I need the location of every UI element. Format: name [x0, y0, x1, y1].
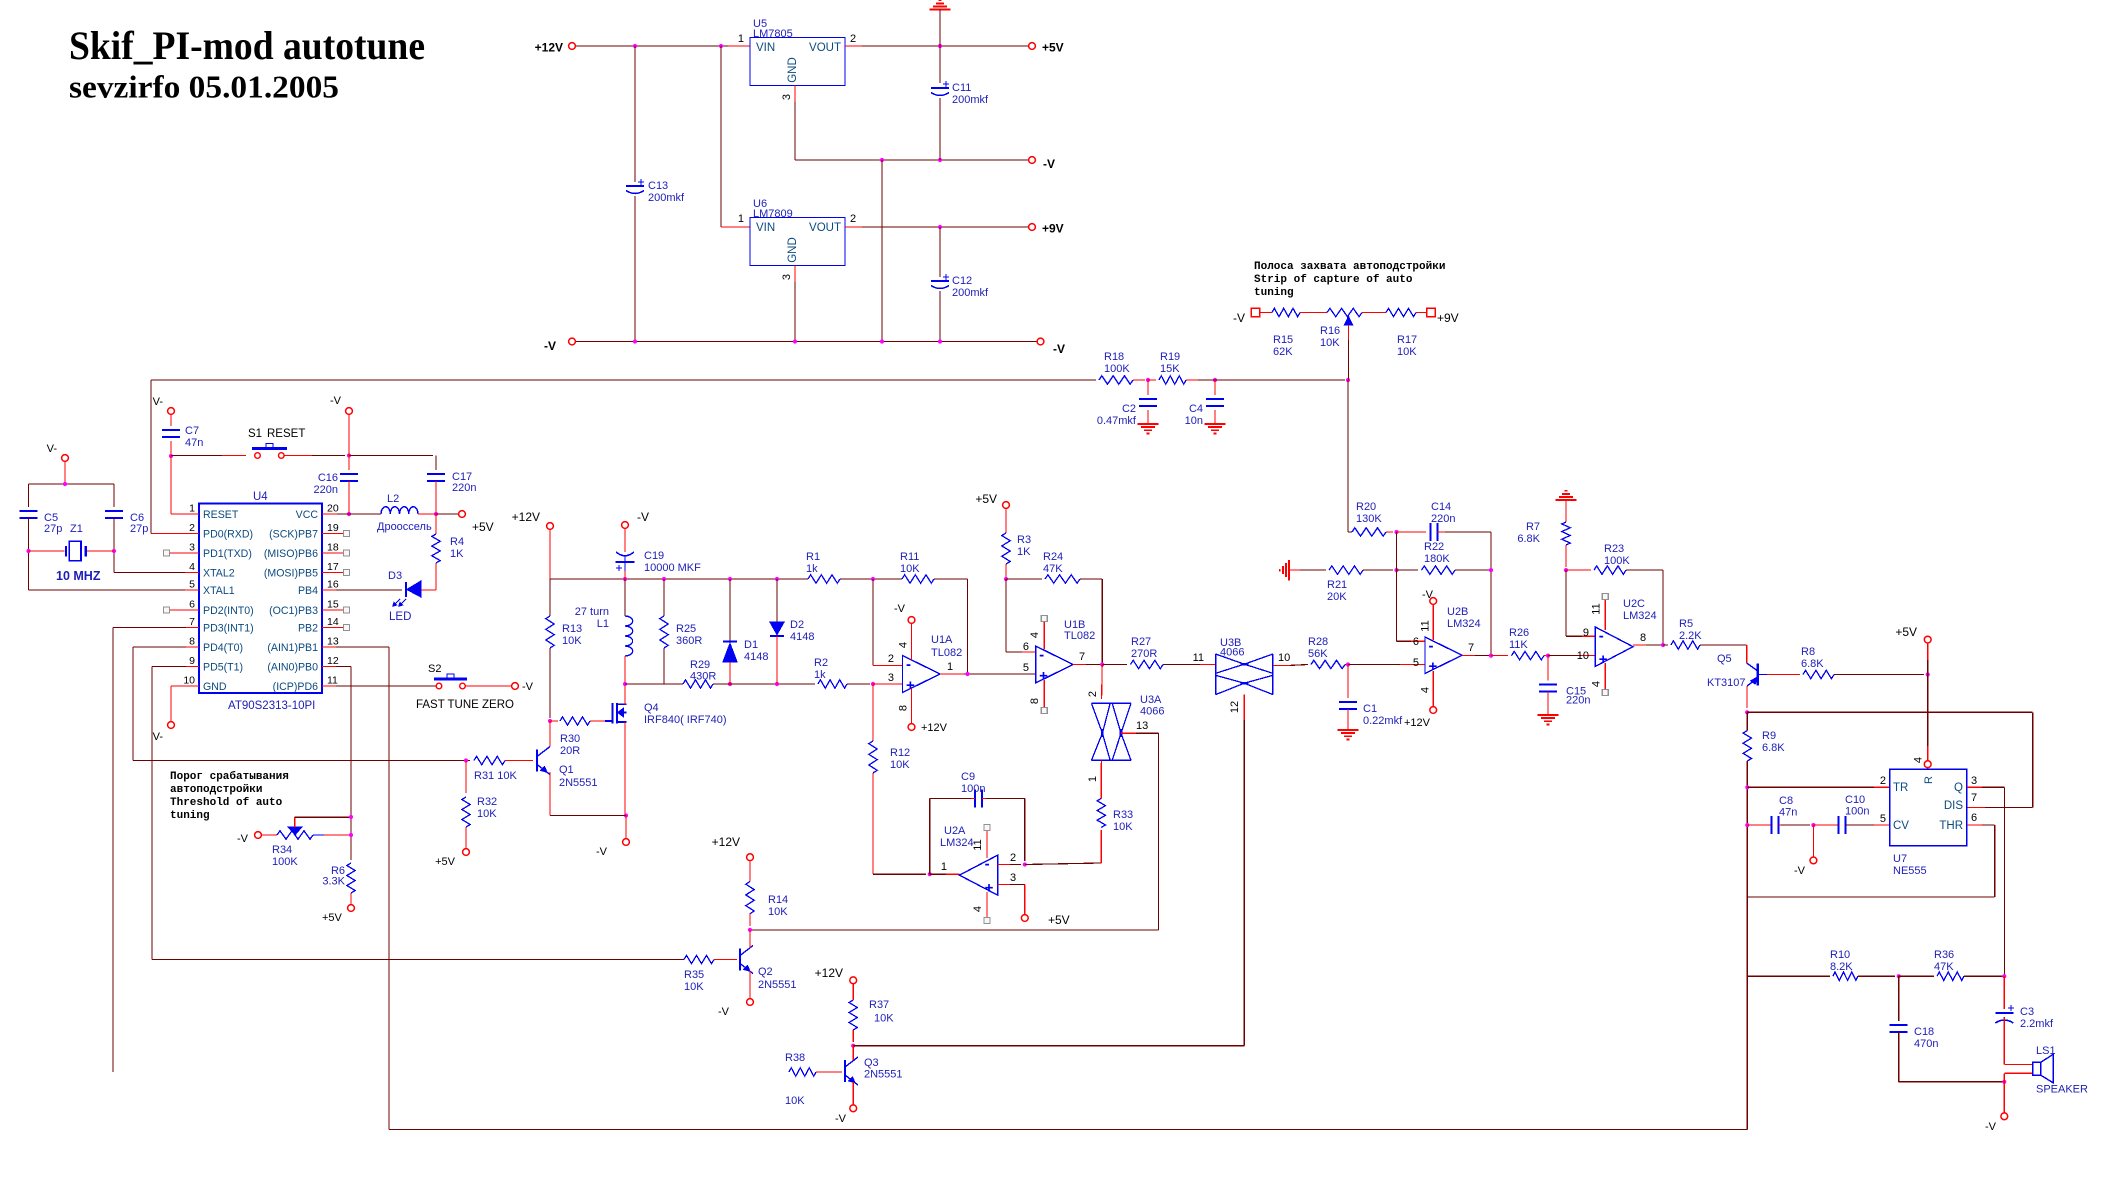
svg-text:100n: 100n — [961, 783, 985, 795]
svg-text:4: 4 — [189, 561, 195, 573]
svg-text:C1: C1 — [1363, 703, 1377, 715]
svg-text:220n: 220n — [452, 482, 476, 494]
svg-text:2.2mkf: 2.2mkf — [2020, 1018, 2054, 1030]
svg-text:-: - — [1599, 628, 1604, 645]
svg-text:-V: -V — [1422, 589, 1434, 601]
svg-text:PB4: PB4 — [298, 585, 318, 597]
svg-text:R1: R1 — [806, 551, 820, 563]
svg-text:4148: 4148 — [744, 651, 768, 663]
svg-text:-V: -V — [1053, 342, 1065, 356]
svg-text:47n: 47n — [185, 437, 203, 449]
svg-text:3.3K: 3.3K — [322, 876, 345, 888]
svg-text:RESET: RESET — [267, 428, 305, 440]
svg-text:C7: C7 — [185, 425, 199, 437]
svg-text:Q2: Q2 — [758, 966, 773, 978]
svg-text:R29: R29 — [690, 659, 710, 671]
svg-text:10: 10 — [1278, 652, 1290, 664]
svg-text:8: 8 — [1029, 698, 1041, 704]
svg-text:U2B: U2B — [1447, 606, 1468, 618]
svg-text:LM7809: LM7809 — [753, 208, 793, 220]
svg-text:62K: 62K — [1273, 346, 1293, 358]
svg-text:tuning: tuning — [1254, 287, 1294, 299]
svg-text:+: + — [1599, 651, 1608, 668]
svg-text:10K: 10K — [1397, 346, 1417, 358]
svg-text:GND: GND — [787, 57, 799, 83]
svg-text:+12V: +12V — [512, 510, 540, 524]
svg-text:Strip of capture of auto: Strip of capture of auto — [1254, 274, 1413, 286]
svg-text:LS1: LS1 — [2036, 1045, 2056, 1057]
svg-text:7: 7 — [1971, 792, 1977, 804]
svg-text:7: 7 — [189, 616, 195, 628]
svg-text:220n: 220n — [1566, 695, 1590, 707]
svg-text:D2: D2 — [790, 619, 804, 631]
svg-text:Q1: Q1 — [559, 764, 574, 776]
svg-text:D1: D1 — [744, 639, 758, 651]
svg-text:VCC: VCC — [296, 509, 319, 521]
svg-text:DIS: DIS — [1944, 800, 1964, 812]
svg-text:10K: 10K — [890, 759, 910, 771]
svg-text:Threshold of auto: Threshold of auto — [170, 797, 283, 809]
svg-text:5: 5 — [189, 579, 195, 591]
svg-text:20K: 20K — [1327, 591, 1347, 603]
svg-text:+12V: +12V — [1404, 717, 1431, 729]
svg-text:R33: R33 — [1113, 809, 1133, 821]
svg-text:-V: -V — [835, 1113, 847, 1125]
svg-text:C10: C10 — [1845, 794, 1865, 806]
svg-text:220n: 220n — [314, 484, 338, 496]
svg-text:XTAL1: XTAL1 — [203, 585, 235, 597]
svg-text:5: 5 — [1880, 813, 1886, 825]
svg-text:6.8K: 6.8K — [1801, 658, 1824, 670]
svg-text:100K: 100K — [1104, 363, 1130, 375]
svg-text:R20: R20 — [1356, 501, 1376, 513]
svg-text:KT3107: KT3107 — [1707, 677, 1746, 689]
svg-text:R2: R2 — [814, 657, 828, 669]
svg-text:10K: 10K — [1320, 337, 1340, 349]
svg-text:C9: C9 — [961, 771, 975, 783]
svg-text:R8: R8 — [1801, 646, 1815, 658]
svg-text:3: 3 — [1010, 872, 1016, 884]
svg-text:Skif_PI-mod autotune: Skif_PI-mod autotune — [69, 23, 425, 68]
svg-text:VOUT: VOUT — [809, 42, 841, 54]
svg-text:100K: 100K — [1604, 555, 1630, 567]
svg-text:-V: -V — [1794, 865, 1806, 877]
svg-text:R23: R23 — [1604, 543, 1624, 555]
svg-text:10: 10 — [1577, 650, 1589, 662]
svg-text:11K: 11K — [1509, 639, 1528, 651]
svg-text:VOUT: VOUT — [809, 222, 841, 234]
svg-text:sevzirfo 05.01.2005: sevzirfo 05.01.2005 — [69, 69, 339, 105]
svg-text:3: 3 — [888, 672, 894, 684]
svg-text:TL082: TL082 — [1064, 630, 1095, 642]
svg-text:4: 4 — [898, 642, 910, 648]
svg-text:+9V: +9V — [1437, 311, 1459, 325]
svg-text:20: 20 — [327, 503, 339, 515]
svg-text:R38: R38 — [785, 1052, 805, 1064]
svg-text:8: 8 — [1640, 632, 1646, 644]
svg-text:+12V: +12V — [815, 966, 843, 980]
svg-text:+12V: +12V — [712, 835, 740, 849]
svg-text:NE555: NE555 — [1893, 865, 1927, 877]
svg-text:1k: 1k — [814, 669, 826, 681]
svg-text:Q3: Q3 — [864, 1057, 879, 1069]
svg-text:16: 16 — [327, 579, 339, 591]
svg-text:C4: C4 — [1189, 403, 1203, 415]
svg-text:5: 5 — [1023, 662, 1029, 674]
svg-text:2N5551: 2N5551 — [864, 1069, 903, 1081]
svg-text:-V: -V — [237, 833, 249, 845]
svg-text:1: 1 — [189, 503, 195, 515]
svg-text:2: 2 — [1010, 852, 1016, 864]
svg-text:R24: R24 — [1043, 551, 1063, 563]
svg-text:6.8K: 6.8K — [1517, 533, 1540, 545]
svg-text:LM324: LM324 — [1623, 610, 1657, 622]
svg-text:R16: R16 — [1320, 325, 1340, 337]
svg-text:PD0(RXD): PD0(RXD) — [203, 529, 253, 541]
svg-text:6: 6 — [1023, 641, 1029, 653]
svg-text:R4: R4 — [450, 536, 464, 548]
svg-text:4: 4 — [972, 906, 984, 912]
svg-text:4066: 4066 — [1140, 706, 1164, 718]
svg-text:11: 11 — [1420, 620, 1432, 631]
svg-text:15K: 15K — [1160, 363, 1180, 375]
svg-text:47K: 47K — [1043, 563, 1063, 575]
svg-text:+5V: +5V — [1048, 913, 1070, 927]
svg-text:1K: 1K — [1017, 546, 1031, 558]
svg-text:27p: 27p — [130, 523, 148, 535]
svg-text:10K: 10K — [1113, 821, 1133, 833]
svg-text:R35: R35 — [684, 969, 704, 981]
svg-text:+5V: +5V — [472, 520, 494, 534]
svg-text:5: 5 — [1413, 657, 1419, 669]
svg-text:1: 1 — [941, 861, 947, 873]
svg-text:(SCK)PB7: (SCK)PB7 — [269, 529, 318, 541]
svg-text:C18: C18 — [1914, 1026, 1934, 1038]
svg-text:3: 3 — [1971, 775, 1977, 787]
svg-text:100K: 100K — [272, 856, 298, 868]
svg-text:V-: V- — [47, 443, 58, 455]
svg-text:XTAL2: XTAL2 — [203, 568, 235, 580]
svg-text:Порог срабатывания: Порог срабатывания — [170, 770, 289, 783]
svg-text:-: - — [1429, 638, 1434, 655]
svg-text:180K: 180K — [1424, 553, 1450, 565]
svg-text:-: - — [985, 856, 990, 873]
svg-text:PD2(INT0): PD2(INT0) — [203, 605, 254, 617]
svg-text:27 turn: 27 turn — [575, 606, 609, 618]
svg-text:10000 MKF: 10000 MKF — [644, 562, 701, 574]
svg-text:R14: R14 — [768, 894, 788, 906]
svg-text:8: 8 — [898, 705, 910, 711]
svg-text:11: 11 — [327, 675, 338, 687]
svg-text:автоподстройки: автоподстройки — [170, 784, 262, 796]
svg-text:GND: GND — [787, 237, 799, 263]
svg-text:-V: -V — [1043, 157, 1055, 171]
svg-text:+5V: +5V — [1042, 41, 1064, 55]
svg-text:R3: R3 — [1017, 534, 1031, 546]
svg-text:C2: C2 — [1122, 403, 1136, 415]
svg-text:18: 18 — [327, 542, 339, 554]
svg-text:U1A: U1A — [931, 634, 953, 646]
svg-text:PD1(TXD): PD1(TXD) — [203, 548, 252, 560]
svg-text:0.47mkf: 0.47mkf — [1097, 415, 1137, 427]
svg-text:Z1: Z1 — [70, 523, 83, 535]
svg-text:12: 12 — [1229, 701, 1241, 713]
svg-text:R32: R32 — [477, 796, 497, 808]
svg-text:-V: -V — [1233, 311, 1245, 325]
svg-text:1K: 1K — [450, 548, 464, 560]
svg-text:2: 2 — [1880, 775, 1886, 787]
svg-text:10n: 10n — [1185, 415, 1203, 427]
svg-text:LED: LED — [389, 611, 411, 623]
svg-text:2: 2 — [1087, 691, 1099, 697]
svg-text:4: 4 — [1029, 632, 1041, 638]
svg-text:10: 10 — [183, 675, 195, 687]
svg-text:LM324: LM324 — [940, 837, 974, 849]
svg-text:(AIN0)PB0: (AIN0)PB0 — [267, 662, 318, 674]
svg-text:-V: -V — [637, 510, 649, 524]
svg-text:3: 3 — [189, 542, 195, 554]
svg-text:C11: C11 — [952, 82, 971, 94]
svg-text:8: 8 — [189, 636, 195, 648]
svg-text:200mkf: 200mkf — [952, 287, 989, 299]
svg-text:TL082: TL082 — [931, 647, 962, 659]
svg-text:R5: R5 — [1679, 618, 1693, 630]
svg-text:TR: TR — [1893, 782, 1908, 794]
svg-text:6: 6 — [1413, 636, 1419, 648]
svg-text:Q: Q — [1954, 782, 1963, 794]
svg-text:-V: -V — [330, 395, 342, 407]
svg-text:THR: THR — [1939, 820, 1963, 832]
svg-text:+9V: +9V — [1042, 222, 1064, 236]
svg-text:VIN: VIN — [756, 42, 775, 54]
svg-text:1k: 1k — [806, 563, 818, 575]
svg-text:-V: -V — [894, 603, 906, 615]
svg-text:(MISO)PB6: (MISO)PB6 — [264, 548, 318, 560]
svg-text:+5V: +5V — [1895, 625, 1917, 639]
svg-text:2.2K: 2.2K — [1679, 630, 1702, 642]
svg-text:+: + — [985, 880, 994, 897]
svg-text:U7: U7 — [1893, 853, 1907, 865]
svg-text:IRF840( IRF740): IRF840( IRF740) — [644, 714, 727, 726]
svg-text:FAST TUNE ZERO: FAST TUNE ZERO — [416, 699, 514, 711]
svg-text:-V: -V — [1985, 1121, 1997, 1133]
svg-text:6: 6 — [1971, 812, 1977, 824]
svg-text:R18: R18 — [1104, 351, 1124, 363]
svg-text:9: 9 — [1583, 627, 1589, 639]
svg-text:Q5: Q5 — [1717, 653, 1732, 665]
svg-text:10K: 10K — [684, 981, 704, 993]
svg-text:17: 17 — [327, 561, 339, 573]
svg-text:U4: U4 — [253, 491, 268, 503]
svg-text:+5V: +5V — [975, 492, 997, 506]
svg-text:U2A: U2A — [944, 825, 966, 837]
svg-text:14: 14 — [327, 616, 339, 628]
svg-text:+12V: +12V — [535, 41, 563, 55]
svg-text:R30: R30 — [560, 733, 580, 745]
svg-text:12: 12 — [327, 655, 339, 667]
svg-text:R7: R7 — [1526, 521, 1540, 533]
svg-text:R11: R11 — [900, 551, 919, 563]
svg-text:C19: C19 — [644, 550, 664, 562]
svg-text:7: 7 — [1468, 642, 1474, 654]
svg-text:1: 1 — [1087, 776, 1099, 782]
svg-text:R25: R25 — [676, 623, 696, 635]
svg-text:+: + — [1039, 668, 1048, 685]
svg-text:2N5551: 2N5551 — [758, 979, 797, 991]
svg-text:CV: CV — [1893, 820, 1909, 832]
svg-text:tuning: tuning — [170, 810, 210, 822]
svg-text:200mkf: 200mkf — [648, 192, 685, 204]
svg-text:R34: R34 — [272, 844, 292, 856]
svg-text:10K: 10K — [785, 1095, 805, 1107]
svg-text:-V: -V — [596, 846, 608, 858]
svg-text:27p: 27p — [44, 523, 62, 535]
svg-text:19: 19 — [327, 522, 339, 534]
svg-text:R17: R17 — [1397, 334, 1417, 346]
svg-text:Полоса захвата автоподстройки: Полоса захвата автоподстройки — [1254, 261, 1445, 273]
svg-text:GND: GND — [203, 681, 227, 693]
svg-text:13: 13 — [327, 636, 339, 648]
svg-text:20R: 20R — [560, 745, 580, 757]
svg-text:10K: 10K — [477, 808, 497, 820]
svg-text:2N5551: 2N5551 — [559, 777, 598, 789]
svg-text:R13: R13 — [562, 623, 582, 635]
svg-text:10K: 10K — [900, 563, 920, 575]
svg-text:C8: C8 — [1779, 795, 1793, 807]
svg-text:130K: 130K — [1356, 513, 1382, 525]
svg-text:360R: 360R — [676, 635, 702, 647]
svg-text:4: 4 — [1591, 681, 1603, 687]
svg-text:1: 1 — [738, 213, 744, 225]
svg-text:430R: 430R — [690, 671, 716, 683]
svg-text:470n: 470n — [1914, 1038, 1938, 1050]
svg-text:S1: S1 — [248, 428, 262, 440]
svg-text:R19: R19 — [1160, 351, 1180, 363]
svg-text:V-: V- — [153, 396, 164, 408]
svg-text:R28: R28 — [1308, 636, 1328, 648]
svg-text:C13: C13 — [648, 180, 668, 192]
svg-text:10K: 10K — [874, 1013, 894, 1025]
svg-text:47n: 47n — [1779, 807, 1797, 819]
svg-text:0.22mkf: 0.22mkf — [1363, 715, 1403, 727]
svg-text:+5V: +5V — [435, 856, 456, 868]
svg-text:R36: R36 — [1934, 949, 1954, 961]
svg-text:3: 3 — [781, 94, 793, 100]
svg-text:11: 11 — [972, 839, 984, 850]
svg-text:U2C: U2C — [1623, 598, 1645, 610]
svg-text:8.2K: 8.2K — [1830, 961, 1853, 973]
svg-text:L1: L1 — [597, 618, 609, 630]
svg-text:C16: C16 — [318, 472, 338, 484]
svg-text:VIN: VIN — [756, 222, 775, 234]
svg-text:PD4(T0): PD4(T0) — [203, 642, 243, 654]
svg-text:PD5(T1): PD5(T1) — [203, 662, 243, 674]
svg-text:L2: L2 — [387, 493, 399, 505]
svg-text:-V: -V — [544, 339, 556, 353]
svg-text:RESET: RESET — [203, 509, 239, 521]
svg-text:6: 6 — [189, 599, 195, 611]
svg-text:-: - — [906, 656, 911, 673]
svg-text:2: 2 — [888, 653, 894, 665]
svg-text:LM7805: LM7805 — [753, 28, 793, 40]
svg-text:R31 10K: R31 10K — [474, 770, 517, 782]
svg-text:+: + — [906, 677, 915, 694]
svg-text:C3: C3 — [2020, 1006, 2034, 1018]
svg-text:R12: R12 — [890, 747, 910, 759]
svg-text:10K: 10K — [562, 635, 582, 647]
svg-text:+5V: +5V — [322, 912, 343, 924]
svg-text:-V: -V — [522, 681, 534, 693]
svg-text:R37: R37 — [869, 999, 889, 1011]
svg-text:15: 15 — [327, 599, 339, 611]
svg-text:(AIN1)PB1: (AIN1)PB1 — [267, 642, 318, 654]
svg-text:R21: R21 — [1327, 579, 1347, 591]
svg-text:R22: R22 — [1424, 541, 1444, 553]
svg-text:47K: 47K — [1934, 961, 1954, 973]
svg-text:6.8K: 6.8K — [1762, 742, 1785, 754]
svg-text:4066: 4066 — [1220, 647, 1244, 659]
svg-text:56K: 56K — [1308, 648, 1328, 660]
svg-text:2: 2 — [850, 33, 856, 45]
svg-text:AT90S2313-10PI: AT90S2313-10PI — [228, 700, 315, 712]
svg-text:V-: V- — [153, 731, 164, 743]
svg-text:-V: -V — [718, 1006, 730, 1018]
svg-text:R15: R15 — [1273, 334, 1293, 346]
svg-text:2: 2 — [850, 213, 856, 225]
svg-text:Q4: Q4 — [644, 702, 659, 714]
svg-text:Дрооссель: Дрооссель — [377, 521, 432, 533]
svg-text:3: 3 — [781, 274, 793, 280]
svg-text:C12: C12 — [952, 275, 972, 287]
svg-text:R9: R9 — [1762, 730, 1776, 742]
svg-text:11: 11 — [1591, 603, 1603, 614]
svg-text:4148: 4148 — [790, 631, 814, 643]
svg-text:270R: 270R — [1131, 648, 1157, 660]
svg-text:LM324: LM324 — [1447, 618, 1481, 630]
svg-text:1: 1 — [947, 661, 953, 673]
svg-text:PB2: PB2 — [298, 623, 318, 635]
svg-text:(MOSI)PB5: (MOSI)PB5 — [264, 568, 318, 580]
svg-text:4: 4 — [1420, 687, 1432, 693]
svg-text:220n: 220n — [1431, 513, 1455, 525]
svg-text:R: R — [1923, 776, 1935, 784]
svg-text:13: 13 — [1136, 720, 1148, 732]
svg-text:PD3(INT1): PD3(INT1) — [203, 623, 254, 635]
svg-text:C14: C14 — [1431, 501, 1451, 513]
svg-text:-: - — [1039, 647, 1044, 664]
svg-text:R26: R26 — [1509, 627, 1529, 639]
svg-text:R27: R27 — [1131, 636, 1151, 648]
svg-text:11: 11 — [1193, 652, 1204, 664]
svg-text:1: 1 — [738, 33, 744, 45]
svg-text:9: 9 — [189, 655, 195, 667]
svg-text:U3A: U3A — [1140, 694, 1162, 706]
svg-text:(OC1)PB3: (OC1)PB3 — [269, 605, 318, 617]
svg-text:(ICP)PD6: (ICP)PD6 — [273, 681, 318, 693]
svg-text:4: 4 — [1913, 757, 1925, 763]
svg-text:D3: D3 — [388, 570, 402, 582]
svg-text:10 MHZ: 10 MHZ — [56, 569, 101, 583]
svg-text:2: 2 — [189, 522, 195, 534]
svg-text:+12V: +12V — [921, 722, 948, 734]
svg-text:100n: 100n — [1845, 806, 1869, 818]
svg-text:7: 7 — [1079, 651, 1085, 663]
svg-text:SPEAKER: SPEAKER — [2036, 1084, 2088, 1096]
svg-text:S2: S2 — [428, 663, 441, 675]
svg-text:10K: 10K — [768, 906, 788, 918]
svg-text:200mkf: 200mkf — [952, 94, 989, 106]
svg-text:R10: R10 — [1830, 949, 1850, 961]
